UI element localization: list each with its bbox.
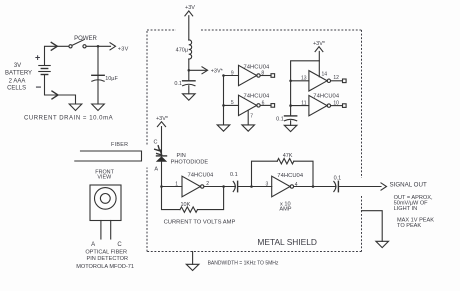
svg-text:+3V: +3V	[118, 46, 129, 52]
svg-text:74HCU04: 74HCU04	[244, 94, 271, 100]
svg-text:+3V*: +3V*	[211, 68, 224, 74]
feedback loop 2 wire	[252, 161, 278, 186]
ground under C1	[92, 104, 105, 111]
ground left stack inputs	[217, 125, 230, 131]
current arrow bottom	[52, 91, 58, 99]
battery B1 3V	[35, 53, 50, 94]
svg-text:MOTOROLA MFOD-71: MOTOROLA MFOD-71	[76, 264, 134, 270]
svg-text:+3V*: +3V*	[156, 116, 169, 122]
metal shield dashed box	[147, 30, 362, 252]
svg-text:METAL SHIELD: METAL SHIELD	[257, 237, 317, 247]
wire battery plus to switch	[45, 46, 69, 65]
svg-text:470µ: 470µ	[176, 47, 189, 53]
ground shield bottom stub	[186, 252, 199, 271]
front view label	[95, 169, 114, 180]
svg-text:+3V: +3V	[185, 5, 195, 11]
svg-text:C: C	[117, 242, 122, 248]
svg-text:10µF: 10µF	[105, 76, 118, 82]
wire unused input tie left stack	[222, 74, 238, 125]
inductor L1 470uH	[176, 40, 192, 59]
node +3Vstar junction	[188, 69, 191, 72]
wire diode to input node	[161, 162, 163, 187]
svg-text:74HCU04: 74HCU04	[277, 173, 304, 179]
net +3V arrow	[110, 43, 129, 53]
pin 7 ground	[242, 110, 255, 131]
wire input to U2	[162, 186, 183, 188]
ground shield right	[376, 241, 389, 247]
net +3Vstar photodiode	[156, 116, 169, 156]
op-amp U1b 74HCU04 unused gate 5-6	[231, 94, 275, 116]
ground under C2	[183, 94, 196, 100]
svg-text:LIGHT IN: LIGHT IN	[394, 206, 418, 212]
wire switch to +3V	[86, 45, 110, 47]
svg-text:CURRENT DRAIN = 10.0mA: CURRENT DRAIN = 10.0mA	[24, 115, 113, 121]
svg-text:5: 5	[231, 100, 234, 106]
svg-text:0.1: 0.1	[230, 172, 238, 178]
op-amp U3 74HCU04 gate 3-4	[266, 173, 304, 197]
label PIN PHOTODIODE	[171, 153, 209, 165]
svg-text:14: 14	[322, 71, 328, 77]
wire C3 to ground	[290, 121, 292, 126]
feedback loop wire	[162, 187, 181, 210]
lead labels A C	[91, 242, 122, 248]
svg-text:13: 13	[301, 75, 307, 81]
svg-text:3: 3	[266, 182, 269, 188]
svg-text:0.1: 0.1	[334, 176, 342, 182]
svg-text:CURRENT TO VOLTS AMP: CURRENT TO VOLTS AMP	[164, 220, 236, 226]
svg-text:3V: 3V	[14, 63, 21, 69]
svg-text:0.1: 0.1	[276, 116, 284, 122]
svg-text:VIEW: VIEW	[97, 175, 112, 181]
photodiode D1	[156, 156, 167, 162]
label x10 amp	[279, 202, 291, 213]
wire U2 out	[204, 186, 236, 188]
node U3 out	[312, 185, 315, 188]
node +3V junction	[97, 45, 100, 48]
resistor R2 47K	[277, 153, 294, 164]
wire input branches right stack	[289, 80, 309, 107]
capacitor C1 10uF	[92, 75, 119, 82]
wire R2 to out node	[294, 161, 313, 186]
svg-text:10K: 10K	[181, 202, 191, 208]
wire R1 to out node	[198, 187, 224, 210]
svg-text:BANDWIDTH = 1KHz TO 5MHz: BANDWIDTH = 1KHz TO 5MHz	[208, 260, 279, 266]
net SIGNAL OUT arrow	[381, 182, 427, 191]
svg-text:PIN DETECTOR: PIN DETECTOR	[87, 256, 129, 262]
svg-text:A: A	[91, 242, 95, 248]
svg-text:AMP: AMP	[279, 207, 291, 213]
svg-text:0.1: 0.1	[174, 81, 182, 87]
current arrow top	[51, 42, 57, 50]
net +3V supply top	[185, 5, 195, 40]
svg-text:9: 9	[231, 70, 234, 76]
svg-text:C: C	[154, 140, 158, 146]
svg-text:11: 11	[301, 100, 306, 106]
svg-text:7: 7	[250, 113, 253, 119]
wire battery minus to ground	[45, 75, 76, 105]
capacitor C4 0.1 coupling	[230, 172, 238, 192]
pin 14 power	[319, 61, 327, 78]
svg-text:+3V*: +3V*	[313, 41, 326, 47]
wire U3 out	[294, 186, 336, 188]
svg-text:47K: 47K	[283, 153, 293, 159]
node U3 input	[250, 185, 253, 188]
svg-text:+: +	[35, 53, 40, 63]
svg-text:FIBER: FIBER	[111, 142, 128, 148]
resistor R1 10K	[180, 202, 198, 212]
capacitor C3 0.1 bypass right	[276, 116, 297, 122]
svg-text:PIN: PIN	[177, 153, 186, 159]
wire C4 to U3	[238, 186, 272, 188]
node amp1 input	[160, 185, 163, 188]
svg-text:A: A	[154, 166, 158, 172]
ground battery	[69, 104, 82, 111]
wire shield to ground	[362, 211, 383, 242]
switch S1 POWER	[69, 36, 98, 48]
capacitor C5 0.1 output	[334, 176, 342, 192]
fiber optic cable	[75, 151, 142, 161]
svg-text:−: −	[36, 83, 42, 94]
detector caption	[76, 250, 134, 271]
ground under C3	[284, 125, 297, 131]
light arrows	[155, 146, 162, 155]
battery label	[5, 63, 32, 92]
svg-text:POWER: POWER	[74, 36, 97, 42]
detector package front view	[90, 185, 121, 239]
wire junction down to cap	[97, 46, 99, 104]
svg-text:BATTERY: BATTERY	[5, 71, 32, 77]
svg-text:OPTICAL FIBER: OPTICAL FIBER	[85, 250, 127, 256]
wire L1 to node	[188, 59, 190, 81]
net +3Vstar arrow	[189, 67, 224, 75]
net +3Vstar right stack	[291, 41, 326, 116]
op-amp U1c 74HCU04 unused gate 13-12	[301, 71, 346, 91]
wire C5 to signal out	[338, 186, 381, 188]
svg-text:1: 1	[175, 181, 178, 187]
svg-text:12: 12	[333, 75, 339, 81]
svg-text:PHOTODIODE: PHOTODIODE	[171, 159, 209, 165]
capacitor C2 0.1 bypass	[174, 81, 195, 87]
op-amp U2 74HCU04 gate 1-2	[175, 172, 214, 196]
svg-text:2 AAA: 2 AAA	[9, 79, 26, 85]
node U2 out	[222, 185, 225, 188]
svg-text:74HCU04: 74HCU04	[313, 94, 340, 100]
svg-text:TO PEAK: TO PEAK	[397, 223, 421, 229]
wire C2 to ground	[188, 86, 190, 94]
op-amp U1a 74HCU04 unused gate 9-8	[231, 65, 275, 86]
svg-text:74HCU04: 74HCU04	[188, 172, 215, 178]
svg-text:CELLS: CELLS	[7, 86, 26, 92]
svg-text:SIGNAL OUT: SIGNAL OUT	[390, 182, 427, 189]
output notes	[394, 195, 435, 229]
op-amp U1d 74HCU04 unused gate 11-10	[301, 94, 346, 116]
